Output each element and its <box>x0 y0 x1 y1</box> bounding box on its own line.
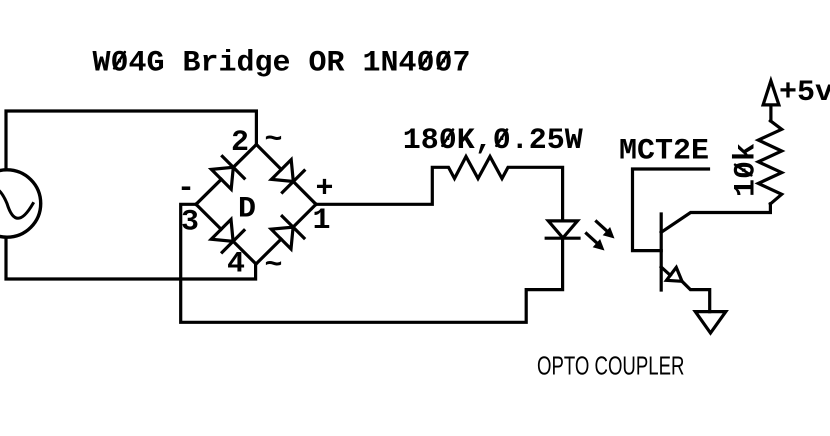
svg-text:4: 4 <box>227 248 245 282</box>
svg-text:+: + <box>316 173 334 207</box>
svg-text:W04G Bridge OR 1N4007: W04G Bridge OR 1N4007 <box>93 47 471 81</box>
svg-text:180K,0.25W: 180K,0.25W <box>403 124 583 158</box>
svg-text:OPTO COUPLER: OPTO COUPLER <box>537 351 684 380</box>
svg-text:~: ~ <box>265 249 283 283</box>
svg-text:D: D <box>238 192 256 226</box>
svg-text:1: 1 <box>313 204 331 238</box>
svg-text:2: 2 <box>231 126 249 160</box>
svg-text:-: - <box>177 172 195 206</box>
svg-text:~: ~ <box>265 124 283 158</box>
svg-text:3: 3 <box>181 206 199 240</box>
svg-text:10k: 10k <box>730 143 764 197</box>
svg-text:MCT2E: MCT2E <box>619 135 709 169</box>
svg-text:+5v: +5v <box>779 76 830 110</box>
